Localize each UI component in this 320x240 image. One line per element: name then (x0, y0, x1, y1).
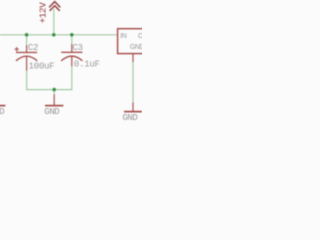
svg-text:IN: IN (120, 33, 127, 40)
ground symbol right (below IC) (124, 102, 142, 111)
svg-text:C3: C3 (72, 42, 82, 53)
svg-text:+12V: +12V (37, 2, 48, 23)
node junction at GND on bottom bus (52, 88, 56, 92)
capacitor C3 symbol (61, 44, 82, 66)
svg-text:0.1uF: 0.1uF (74, 59, 100, 70)
wire C2 top lead (net) (26, 35, 28, 46)
ground symbol center (below bottom bus) (45, 94, 63, 105)
svg-text:OUT: OUT (138, 33, 142, 40)
node junction at +12V on top bus (52, 33, 56, 37)
capacitor C2 symbol (polarized) (15, 45, 38, 71)
svg-text:GND: GND (130, 44, 142, 51)
power symbol +12V arrow (49, 2, 60, 11)
wire IC GND pin down to ground (132, 62, 134, 103)
wire GND stub below bottom bus (53, 90, 55, 95)
ground symbol left edge (clipped) (0, 105, 5, 107)
wire top +12V bus (0, 34, 118, 36)
node junction at C3 on top bus (70, 33, 74, 37)
wire from +12V arrow down to bus (53, 9, 55, 35)
IC GND pin lead (132, 54, 134, 62)
svg-text:GND: GND (122, 112, 138, 123)
node junction at C2 on top bus (25, 33, 29, 37)
svg-text:GND: GND (44, 106, 60, 117)
svg-text:C2: C2 (28, 42, 38, 53)
op-amp/regulator IC U1 box (clipped at right edge) (118, 29, 164, 54)
wire C2 bottom to bottom bus (27, 66, 72, 89)
svg-text:100uF: 100uF (29, 60, 55, 71)
wire C3 top lead (net) (71, 35, 73, 44)
